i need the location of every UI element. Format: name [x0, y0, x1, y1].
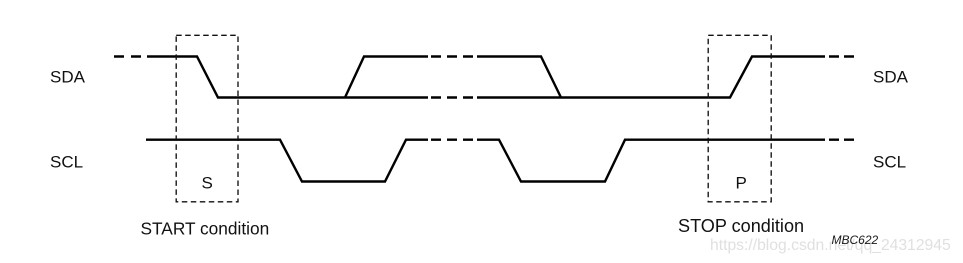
svg-text:https://blog.csdn.net/qq_24312: https://blog.csdn.net/qq_24312945	[710, 237, 951, 254]
wire SDA data pulse high segment and falling edge	[477, 57, 561, 98]
START condition dashed box	[176, 35, 238, 202]
wire SCL high, first low pulse, to mid break	[146, 140, 428, 182]
svg-text:SCL: SCL	[873, 153, 906, 172]
svg-text:P: P	[736, 174, 747, 193]
svg-text:S: S	[202, 174, 213, 193]
wire SDA data pulse rising edge and high segment	[345, 57, 428, 98]
wire SCL mid dashed break	[431, 138, 474, 140]
wire SDA low rail mid dashed break	[431, 96, 474, 98]
svg-text:STOP condition: STOP condition	[678, 216, 804, 236]
svg-text:SCL: SCL	[50, 153, 83, 172]
svg-text:SDA: SDA	[873, 68, 909, 87]
wire SDA left dashed lead-in	[114, 55, 141, 57]
wire SDA high then falling edge (START) then low rail to mid break	[147, 57, 428, 98]
svg-text:SDA: SDA	[50, 68, 86, 87]
svg-text:START condition: START condition	[141, 219, 270, 239]
wire SDA right dashed tail	[829, 55, 854, 57]
svg-text:MBC622: MBC622	[832, 233, 879, 247]
wire SCL second low pulse then high to right	[477, 140, 825, 182]
STOP condition dashed box	[708, 35, 771, 202]
wire SCL right dashed tail	[829, 138, 854, 140]
wire SDA data pulse high dashed break	[431, 55, 474, 57]
wire SDA low rail then rising edge (STOP) then high to right	[477, 57, 825, 98]
